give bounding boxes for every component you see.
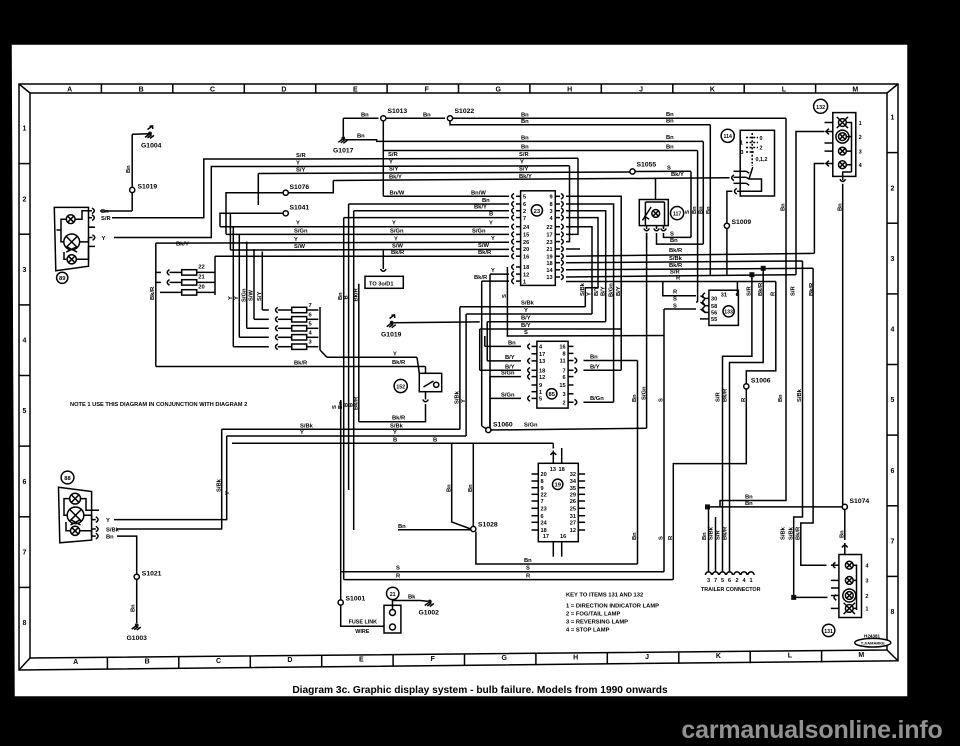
wire B/Y 85-13 xyxy=(487,360,521,362)
wire B/Gn 85-2 xyxy=(584,401,614,403)
svg-text:Bk/R: Bk/R xyxy=(478,250,492,256)
svg-text:B/Y: B/Y xyxy=(601,286,607,296)
svg-text:26: 26 xyxy=(570,499,576,505)
svg-text:S/Gn: S/Gn xyxy=(501,371,515,377)
wire S into 133-58 xyxy=(696,301,698,303)
svg-text:152: 152 xyxy=(396,384,405,390)
svg-text:89: 89 xyxy=(59,276,66,282)
svg-text:Bn: Bn xyxy=(781,203,787,211)
svg-text:4: 4 xyxy=(23,338,27,345)
svg-text:Y: Y xyxy=(106,518,110,524)
svg-text:Bn: Bn xyxy=(670,238,678,244)
wire Bn from 132 xyxy=(842,184,844,505)
wire S/R pin13 xyxy=(566,275,796,277)
svg-text:S/R: S/R xyxy=(101,216,111,222)
svg-text:Y: Y xyxy=(300,430,304,436)
svg-text:S/Bk: S/Bk xyxy=(580,282,586,296)
svg-text:Bn: Bn xyxy=(837,203,843,211)
svg-text:Y: Y xyxy=(520,160,524,166)
svg-text:3: 3 xyxy=(865,579,868,585)
wire S/W left vert xyxy=(229,213,231,250)
svg-text:S/Y: S/Y xyxy=(519,166,528,172)
wire Bn bus A xyxy=(453,117,786,119)
fuse 21 xyxy=(182,280,197,285)
wire v358 Bk/R xyxy=(358,284,360,422)
svg-text:11: 11 xyxy=(560,359,566,365)
svg-text:2 = FOG/TAIL LAMP: 2 = FOG/TAIL LAMP xyxy=(566,612,621,618)
splice S1019 xyxy=(130,187,135,192)
wire Bn bus B xyxy=(450,121,710,125)
splice S1060 xyxy=(486,427,491,432)
svg-text:5: 5 xyxy=(23,408,27,415)
wire fuse right join xyxy=(197,271,215,273)
svg-text:C: C xyxy=(210,86,215,93)
svg-text:Bk/R: Bk/R xyxy=(354,287,360,301)
wire fuse 7 feed xyxy=(261,252,263,311)
svg-text:21: 21 xyxy=(198,274,205,280)
svg-text:Bn: Bn xyxy=(702,532,708,540)
svg-text:S/Gn: S/Gn xyxy=(501,392,515,398)
svg-text:8: 8 xyxy=(891,609,895,616)
svg-text:18: 18 xyxy=(546,261,552,267)
wire S/R drop to pin17 xyxy=(566,158,578,234)
svg-text:Bn/W: Bn/W xyxy=(471,190,486,196)
svg-text:Y: Y xyxy=(389,160,393,166)
svg-text:Bk/R: Bk/R xyxy=(669,248,683,254)
ground G1003 xyxy=(135,623,139,627)
svg-text:7: 7 xyxy=(891,538,895,545)
ground G1004 xyxy=(148,132,152,136)
svg-text:Bn: Bn xyxy=(508,340,516,346)
svg-text:Y: Y xyxy=(461,399,467,403)
svg-text:B/Y: B/Y xyxy=(590,364,600,370)
svg-text:WIRE: WIRE xyxy=(355,629,369,635)
wire R down xyxy=(673,389,746,580)
svg-text:Bn: Bn xyxy=(666,144,674,150)
wire S1019 down xyxy=(131,193,133,211)
svg-text:12: 12 xyxy=(523,272,529,278)
svg-text:S: S xyxy=(670,231,674,237)
splice S1021 xyxy=(134,574,139,579)
svg-text:5: 5 xyxy=(891,397,895,404)
wire S1076 right up to Bk/Y xyxy=(288,181,333,193)
splice S1076 xyxy=(283,190,288,195)
svg-text:Y: Y xyxy=(392,221,396,227)
wire G1017 up xyxy=(342,118,344,136)
svg-text:E: E xyxy=(359,657,364,664)
trailer connector xyxy=(705,572,711,575)
svg-text:S1076: S1076 xyxy=(290,184,310,191)
svg-text:3: 3 xyxy=(707,578,710,584)
svg-text:2: 2 xyxy=(23,196,27,203)
svg-text:S1006: S1006 xyxy=(751,378,771,385)
svg-text:Bk/R: Bk/R xyxy=(294,361,308,367)
svg-text:Bn: Bn xyxy=(101,209,109,215)
wire Bn vertical xyxy=(637,361,639,565)
wire Bk/R pin19 xyxy=(566,253,814,256)
svg-text:Bk/R: Bk/R xyxy=(354,396,360,410)
svg-text:J: J xyxy=(645,654,649,661)
svg-text:Bn: Bn xyxy=(778,394,784,402)
svg-text:4: 4 xyxy=(891,327,895,334)
wire S into 133-56 xyxy=(664,308,696,310)
wire B xyxy=(344,217,509,219)
fuse 6 xyxy=(292,317,307,322)
svg-text:S: S xyxy=(526,566,530,572)
wire Bn xyxy=(343,117,378,119)
svg-text:6: 6 xyxy=(891,468,895,475)
svg-text:S/R: S/R xyxy=(716,530,722,540)
svg-text:55: 55 xyxy=(711,317,717,323)
wire S pin18 down xyxy=(506,267,508,336)
svg-text:1: 1 xyxy=(23,126,27,133)
svg-text:15: 15 xyxy=(559,383,565,389)
svg-text:15: 15 xyxy=(523,233,529,239)
wire Bn from 117 xyxy=(657,233,704,244)
svg-text:Bk/R: Bk/R xyxy=(723,526,729,540)
svg-text:S1028: S1028 xyxy=(478,522,498,529)
wire Y bus to pin26 xyxy=(168,241,509,244)
svg-text:Bn: Bn xyxy=(745,495,753,501)
svg-text:S/Gn: S/Gn xyxy=(241,288,247,302)
svg-text:Y: Y xyxy=(491,236,495,242)
svg-text:Bk/Y: Bk/Y xyxy=(474,205,487,211)
wire Y stack xyxy=(466,313,592,315)
svg-text:Bn: Bn xyxy=(666,135,674,141)
svg-text:G1019: G1019 xyxy=(381,332,402,339)
svg-text:H: H xyxy=(567,86,572,93)
svg-text:2: 2 xyxy=(735,578,738,584)
svg-text:2: 2 xyxy=(865,594,868,600)
svg-text:B: B xyxy=(433,437,437,443)
wire v348 xyxy=(348,204,350,490)
svg-text:S: S xyxy=(667,165,671,171)
svg-text:2: 2 xyxy=(562,400,565,406)
svg-text:Y: Y xyxy=(587,292,593,296)
svg-text:G: G xyxy=(495,86,501,93)
svg-text:27: 27 xyxy=(570,521,576,527)
svg-text:S1019: S1019 xyxy=(138,184,158,191)
wire Bn drop v2 xyxy=(697,151,699,303)
ground G1019 xyxy=(390,321,394,325)
svg-text:A: A xyxy=(67,86,72,93)
svg-text:56: 56 xyxy=(711,311,717,317)
svg-text:Bn: Bn xyxy=(446,484,452,492)
svg-text:H: H xyxy=(573,655,578,662)
svg-text:1: 1 xyxy=(740,140,743,146)
svg-text:Y: Y xyxy=(524,308,528,314)
wire S/Gn to 117 xyxy=(491,428,647,430)
svg-text:16: 16 xyxy=(523,254,529,260)
svg-text:1: 1 xyxy=(891,115,895,122)
svg-text:G1002: G1002 xyxy=(419,610,440,617)
svg-text:S: S xyxy=(659,398,665,402)
wire Bk/Y xyxy=(354,210,509,212)
wire Bn to trailer xyxy=(708,507,710,572)
svg-text:S1013: S1013 xyxy=(388,108,408,115)
wire feed to 117 top xyxy=(655,178,657,199)
svg-text:6: 6 xyxy=(728,578,731,584)
svg-text:S/Bk: S/Bk xyxy=(216,478,222,492)
svg-text:S/Y: S/Y xyxy=(389,167,398,173)
wire Bk/R vertical left xyxy=(155,243,157,366)
svg-text:S/R: S/R xyxy=(296,153,306,159)
wire S/Bk riser xyxy=(459,307,461,430)
svg-text:S/W: S/W xyxy=(249,290,255,301)
svg-text:carmanualsonline.info: carmanualsonline.info xyxy=(681,716,942,744)
svg-text:Bk/R: Bk/R xyxy=(758,282,764,296)
svg-text:Y: Y xyxy=(294,237,298,243)
svg-text:B/Y: B/Y xyxy=(505,355,515,361)
svg-text:G1004: G1004 xyxy=(141,143,162,150)
svg-text:Bk/R: Bk/R xyxy=(796,526,802,540)
wire Bk/R to trailer xyxy=(730,268,764,571)
svg-text:13: 13 xyxy=(539,359,545,365)
wire S1001 feed xyxy=(340,400,342,600)
splice S1074 xyxy=(842,504,847,509)
splice S1028 xyxy=(471,526,476,531)
wire B/Y stack xyxy=(487,321,606,323)
splice S1022 xyxy=(447,116,452,121)
svg-text:S/Gn: S/Gn xyxy=(524,422,538,428)
svg-text:3: 3 xyxy=(549,209,552,215)
svg-text:E: E xyxy=(353,86,358,93)
svg-text:Bn: Bn xyxy=(524,558,532,564)
svg-text:3 = REVERSING LAMP: 3 = REVERSING LAMP xyxy=(566,620,628,626)
svg-text:Bk/R: Bk/R xyxy=(392,416,406,422)
svg-text:Y: Y xyxy=(394,236,398,242)
wire S/Bk pin4 xyxy=(566,218,598,307)
wire Y pin22 xyxy=(566,227,592,314)
svg-text:4 = STOP LAMP: 4 = STOP LAMP xyxy=(566,628,610,634)
svg-text:8: 8 xyxy=(562,352,565,358)
connector 133 xyxy=(709,290,739,325)
wire S1021 down xyxy=(136,579,138,623)
wire fuse 4 feed xyxy=(238,234,240,337)
wire Bk/R bus xyxy=(156,366,426,368)
svg-text:F: F xyxy=(425,86,430,93)
svg-text:FUSE LINK: FUSE LINK xyxy=(349,620,378,626)
wire Bk/R return xyxy=(359,404,426,422)
svg-text:S/Bk: S/Bk xyxy=(669,256,683,262)
lamp block 131 xyxy=(842,545,848,547)
fuse 7 xyxy=(292,307,307,312)
svg-text:D: D xyxy=(281,86,286,93)
splice S1055 xyxy=(630,169,635,174)
svg-text:3: 3 xyxy=(562,392,565,398)
svg-text:20: 20 xyxy=(523,247,529,253)
wire 114 out to S1009 xyxy=(727,191,732,223)
svg-text:Bk/Y: Bk/Y xyxy=(176,241,189,247)
wire S/Bk mid xyxy=(222,428,460,430)
svg-text:B: B xyxy=(139,86,144,93)
svg-text:Bk/R: Bk/R xyxy=(474,275,488,281)
wire bar to Y xyxy=(320,350,327,357)
splice S1013 xyxy=(381,116,386,121)
wire Bn A down xyxy=(720,118,786,507)
wire Bn to 131 xyxy=(844,510,846,541)
svg-text:0,1,2: 0,1,2 xyxy=(756,157,768,163)
wire S/R run xyxy=(112,159,295,218)
wire B/Y stack 2 xyxy=(480,328,622,330)
svg-text:J: J xyxy=(639,86,643,93)
wire v490 xyxy=(489,274,491,430)
svg-text:Bn: Bn xyxy=(632,394,638,402)
splice S1041 xyxy=(283,211,288,216)
wire S/Gn 85-12 xyxy=(490,376,521,378)
svg-text:2: 2 xyxy=(859,135,862,141)
wire S/Gn 85-5 xyxy=(490,397,521,399)
wire Bn left of S1028 xyxy=(398,529,471,531)
svg-text:17: 17 xyxy=(543,534,549,540)
svg-text:Bn: Bn xyxy=(745,501,753,507)
wire R bottom xyxy=(344,579,674,581)
connector 23 xyxy=(521,191,556,286)
svg-text:Bk/Y: Bk/Y xyxy=(671,172,684,178)
svg-text:A: A xyxy=(73,659,78,666)
ground G1002 xyxy=(428,600,432,604)
svg-text:S1001: S1001 xyxy=(346,596,366,603)
svg-text:88: 88 xyxy=(64,476,71,482)
svg-text:0: 0 xyxy=(760,136,763,142)
svg-text:S/R: S/R xyxy=(747,286,753,296)
svg-text:Y: Y xyxy=(489,221,493,227)
wire S stack xyxy=(507,335,664,338)
fuse 3 xyxy=(292,344,307,349)
svg-text:7: 7 xyxy=(541,499,544,505)
fuse 4 xyxy=(292,335,307,340)
svg-text:1: 1 xyxy=(539,390,542,396)
svg-text:B/Gn: B/Gn xyxy=(608,283,614,297)
svg-text:21: 21 xyxy=(390,592,396,598)
wire B/Y pin9 xyxy=(566,196,621,370)
svg-text:21: 21 xyxy=(546,247,552,253)
svg-text:L: L xyxy=(788,653,793,660)
svg-text:Bn: Bn xyxy=(666,119,674,125)
svg-text:S1009: S1009 xyxy=(732,219,752,226)
svg-text:Bk/Y: Bk/Y xyxy=(389,174,402,180)
svg-text:Bn: Bn xyxy=(468,484,474,492)
svg-text:S/W: S/W xyxy=(294,244,305,250)
svg-text:6: 6 xyxy=(23,479,27,486)
svg-text:Bn: Bn xyxy=(361,112,369,118)
svg-text:S1060: S1060 xyxy=(493,422,513,429)
svg-text:Bk/R: Bk/R xyxy=(723,388,729,402)
wire Y from 88 xyxy=(114,436,227,520)
svg-text:3: 3 xyxy=(741,150,744,156)
wire R bus xyxy=(566,281,776,283)
svg-text:34: 34 xyxy=(570,479,577,485)
svg-text:Bn: Bn xyxy=(106,535,114,541)
svg-text:22: 22 xyxy=(198,264,204,270)
svg-text:Bn: Bn xyxy=(590,355,598,361)
wire fuse 5 feed xyxy=(246,242,248,329)
svg-text:7: 7 xyxy=(562,369,565,375)
svg-text:S: S xyxy=(502,294,508,298)
wire G1019 to B/Y xyxy=(394,321,480,324)
wire Bn xyxy=(349,203,509,205)
wire E52 out xyxy=(425,392,427,400)
svg-text:30: 30 xyxy=(711,297,717,303)
wire S/Y left end down xyxy=(257,174,259,206)
svg-text:16: 16 xyxy=(559,345,565,351)
wire Y mid xyxy=(227,435,466,437)
svg-text:13: 13 xyxy=(546,275,552,281)
svg-text:7: 7 xyxy=(309,303,312,309)
fuse 22 xyxy=(182,270,197,275)
wire Bn bus C xyxy=(345,140,703,142)
svg-text:1: 1 xyxy=(859,121,862,127)
svg-text:B: B xyxy=(145,659,150,666)
svg-text:Bn: Bn xyxy=(699,206,705,214)
svg-text:S1022: S1022 xyxy=(455,108,475,115)
svg-text:19: 19 xyxy=(546,254,552,260)
svg-text:Y: Y xyxy=(296,161,300,167)
svg-text:T.J/AMARKE: T.J/AMARKE xyxy=(861,641,885,646)
wire Bn xyxy=(386,117,445,119)
svg-text:Bn: Bn xyxy=(126,165,132,173)
svg-text:20: 20 xyxy=(541,472,547,478)
svg-text:Y: Y xyxy=(296,221,300,227)
svg-text:18: 18 xyxy=(539,369,545,375)
wire Y to pin12 xyxy=(490,273,509,275)
wire Bn bus D xyxy=(383,121,697,151)
svg-text:132: 132 xyxy=(816,105,825,111)
wire S/Bk stack xyxy=(460,306,585,308)
svg-text:9: 9 xyxy=(541,486,544,492)
svg-text:M: M xyxy=(852,86,858,93)
svg-text:Bk/Y: Bk/Y xyxy=(519,174,532,180)
svg-text:31: 31 xyxy=(570,514,576,520)
svg-text:20: 20 xyxy=(198,284,204,290)
svg-text:9: 9 xyxy=(549,195,552,201)
svg-text:14: 14 xyxy=(546,268,553,274)
wire S after S1055 xyxy=(635,170,691,172)
svg-text:12: 12 xyxy=(539,375,545,381)
wire v353 xyxy=(353,211,355,530)
svg-text:S/R: S/R xyxy=(716,392,722,402)
svg-text:24: 24 xyxy=(523,225,530,231)
wire S/Gn to pin15 xyxy=(226,233,509,235)
wire S1013 down to Bn/W xyxy=(382,151,384,197)
svg-text:S1055: S1055 xyxy=(637,162,657,169)
svg-text:B: B xyxy=(393,437,397,443)
wire S/R up to 132 xyxy=(796,132,824,275)
svg-text:5: 5 xyxy=(523,195,526,201)
svg-text:Bn: Bn xyxy=(131,604,137,612)
wire B/Gn pin8 xyxy=(566,204,614,402)
svg-text:S/Y: S/Y xyxy=(257,292,263,301)
svg-text:5: 5 xyxy=(721,578,724,584)
svg-text:17: 17 xyxy=(539,352,545,358)
svg-text:G1003: G1003 xyxy=(127,635,148,642)
svg-text:18: 18 xyxy=(541,528,547,534)
svg-text:16: 16 xyxy=(560,534,566,540)
wire fuse 6 feed xyxy=(253,249,255,319)
wire B/Y 85-18 xyxy=(480,369,521,371)
svg-text:17: 17 xyxy=(546,233,552,239)
lamp cluster 89 xyxy=(54,207,88,270)
wire Bn lower xyxy=(708,506,843,508)
svg-text:2: 2 xyxy=(523,209,526,215)
svg-text:Bn: Bn xyxy=(357,133,365,139)
wire B into 19 xyxy=(552,443,554,448)
lamp block 132 xyxy=(814,99,828,113)
svg-text:2: 2 xyxy=(891,185,895,192)
border frame xyxy=(19,84,898,670)
svg-text:85: 85 xyxy=(548,392,555,398)
svg-text:18: 18 xyxy=(523,265,529,271)
